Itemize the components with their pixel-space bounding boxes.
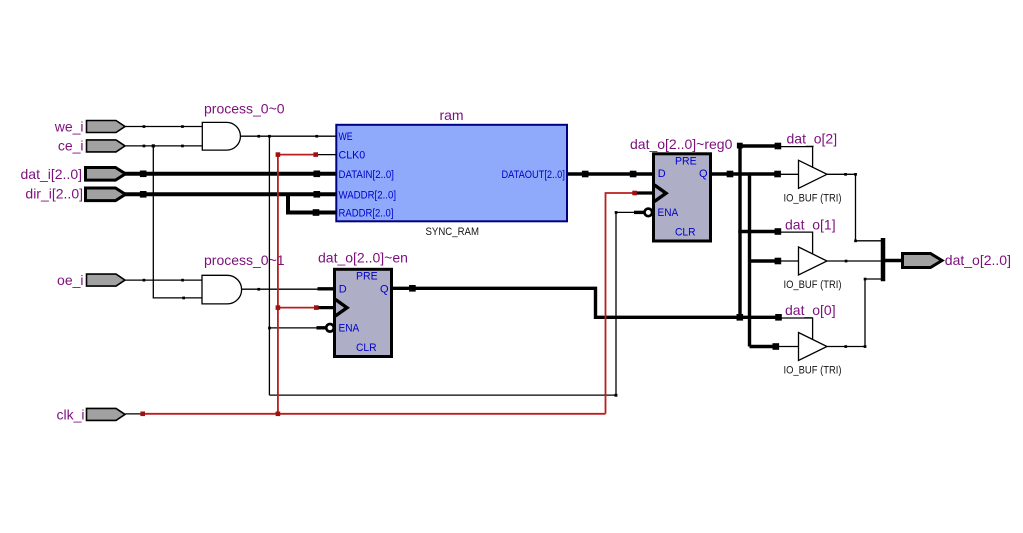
- bus junction squares: [140, 143, 782, 350]
- svg-text:WE: WE: [339, 131, 353, 143]
- svg-text:dat_o[2]: dat_o[2]: [787, 130, 838, 146]
- svg-text:DATAIN[2..0]: DATAIN[2..0]: [339, 169, 395, 181]
- OE line buffer3: [781, 318, 813, 340]
- data stub buffer1: [778, 173, 799, 175]
- wire ENA net bottom run to reg0: [269, 212, 634, 395]
- ENA stub reg0: [634, 211, 645, 214]
- wire AND1 output to ram WE: [241, 135, 337, 137]
- svg-text:RADDR[2..0]: RADDR[2..0]: [339, 207, 394, 219]
- output port dat_o[2..0]: [903, 252, 1011, 268]
- input port clk_i: [56, 406, 125, 422]
- svg-text:CLK0: CLK0: [339, 149, 366, 161]
- ENA bubble en: [326, 324, 334, 332]
- svg-text:ram: ram: [439, 107, 463, 123]
- svg-text:process_0~1: process_0~1: [204, 252, 285, 268]
- ENA bubble reg0: [645, 209, 653, 217]
- wire ENA net vertical: [268, 136, 270, 395]
- wire ce_i to AND1: [125, 145, 202, 147]
- bus collector bar: [881, 238, 886, 281]
- svg-text:dir_i[2..0]: dir_i[2..0]: [25, 185, 83, 201]
- bus tap dat_o[1]: [738, 230, 779, 233]
- wire buffer1 output: [827, 174, 882, 241]
- tri-state buffer IO_BUF 2: [784, 217, 842, 291]
- svg-text:dat_o[2..0]~reg0: dat_o[2..0]~reg0: [630, 136, 733, 152]
- svg-text:Q: Q: [699, 168, 708, 180]
- wire ENA branch to en FF: [269, 327, 318, 329]
- red clock net main: [143, 413, 606, 415]
- OE line buffer2: [781, 232, 813, 254]
- bus en Q run to tap dat_o[0]: [392, 288, 780, 317]
- bus dir_i to WADDR: [124, 192, 336, 196]
- thin wire junction dots: [143, 125, 867, 397]
- input port we_i: [54, 119, 125, 135]
- svg-text:ENA: ENA: [339, 322, 360, 334]
- input port ce_i: [58, 138, 125, 154]
- input port dir_i[2..0]: [25, 185, 125, 201]
- svg-text:process_0~0: process_0~0: [204, 101, 285, 117]
- bus DATAOUT to reg0 D: [567, 172, 654, 175]
- red junction squares: [140, 152, 636, 416]
- bus dat_i to DATAIN: [124, 172, 336, 176]
- svg-text:D: D: [658, 168, 666, 180]
- wire oe_i to AND2: [125, 279, 202, 281]
- svg-text:clk_i: clk_i: [56, 406, 84, 422]
- bus tap dat_o[2]: [738, 144, 779, 147]
- svg-text:oe_i: oe_i: [57, 272, 83, 288]
- svg-text:dat_o[0]: dat_o[0]: [785, 302, 836, 318]
- red clock branch to CLK0/en: [278, 155, 316, 414]
- svg-text:Q: Q: [380, 283, 389, 295]
- wire we_i to AND1: [125, 126, 202, 128]
- AND gate process_0~0: [202, 101, 284, 151]
- bus data tap row3: [750, 345, 778, 348]
- clock stub reg0: [636, 191, 655, 194]
- wire buffer3 output: [827, 279, 881, 347]
- bus reg0 Q: [711, 172, 779, 175]
- wire AND2 output to en D: [242, 288, 318, 290]
- wire CLK0 pin stub: [317, 154, 337, 156]
- AND gate process_0~1: [202, 252, 285, 304]
- svg-text:IO_BUF (TRI): IO_BUF (TRI): [784, 365, 842, 377]
- wire ce_i fanout down to AND2: [153, 146, 202, 298]
- wire clk_i stub: [125, 413, 142, 415]
- svg-text:DATAOUT[2..0]: DATAOUT[2..0]: [502, 169, 565, 181]
- svg-text:CLR: CLR: [675, 227, 696, 239]
- svg-text:CLR: CLR: [356, 342, 377, 354]
- tri-state buffer IO_BUF 1: [784, 130, 842, 204]
- input port dat_i[2..0]: [21, 166, 126, 182]
- svg-text:D: D: [339, 283, 347, 295]
- bus to output port: [883, 259, 903, 262]
- svg-text:ce_i: ce_i: [58, 138, 84, 154]
- wire buffer2 output: [827, 260, 882, 262]
- svg-text:dat_i[2..0]: dat_i[2..0]: [21, 166, 83, 182]
- D stub en FF: [318, 287, 336, 290]
- svg-text:IO_BUF (TRI): IO_BUF (TRI): [784, 279, 842, 291]
- register dat_o[2..0]~en: [318, 249, 408, 356]
- svg-text:SYNC_RAM: SYNC_RAM: [426, 226, 480, 238]
- clock wedge reg0: [654, 185, 666, 202]
- ENA stub en FF: [317, 326, 327, 329]
- register dat_o[2..0]~reg0: [630, 136, 733, 241]
- bus left (enable) vertical: [738, 144, 741, 317]
- input port oe_i: [57, 272, 125, 288]
- tri-state buffer IO_BUF 3: [784, 302, 842, 377]
- bus branch to RADDR: [288, 194, 336, 212]
- svg-text:WADDR[2..0]: WADDR[2..0]: [339, 189, 397, 201]
- svg-text:ENA: ENA: [658, 207, 679, 219]
- svg-text:dat_o[2..0]~en: dat_o[2..0]~en: [318, 249, 408, 265]
- clock wedge en: [335, 299, 347, 316]
- svg-text:PRE: PRE: [675, 156, 697, 168]
- svg-text:IO_BUF (TRI): IO_BUF (TRI): [784, 192, 842, 204]
- svg-text:we_i: we_i: [54, 119, 84, 135]
- ram block SYNC_RAM: [336, 107, 567, 238]
- data stub buffer3: [778, 346, 799, 348]
- red clock branch to reg0 clock: [606, 193, 635, 414]
- bus right (data) vertical: [748, 174, 751, 347]
- data stub buffer2: [780, 260, 799, 262]
- OE line buffer1: [781, 147, 813, 168]
- bus data tap row2: [750, 259, 780, 262]
- svg-text:dat_o[2..0]: dat_o[2..0]: [945, 252, 1011, 268]
- clock stub en FF: [318, 306, 336, 309]
- svg-text:PRE: PRE: [356, 271, 378, 283]
- red clock branch to en FF clock: [278, 307, 317, 309]
- svg-text:dat_o[1]: dat_o[1]: [785, 217, 836, 233]
